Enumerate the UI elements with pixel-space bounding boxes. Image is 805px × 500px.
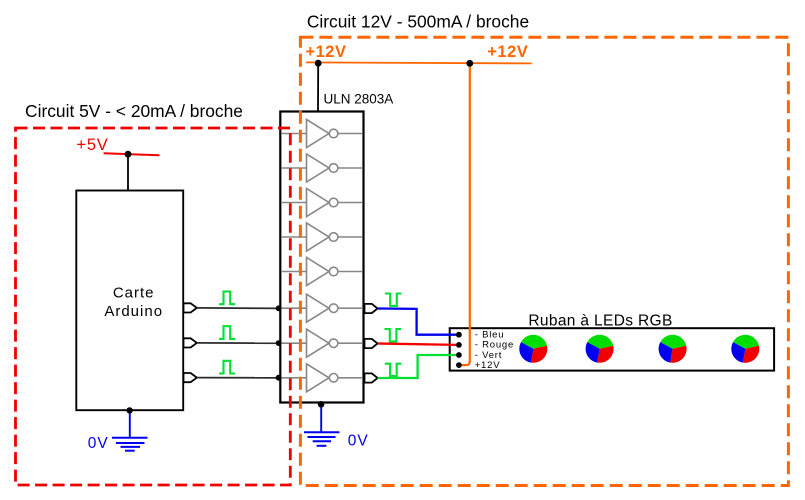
label 0V (U1 ground) bbox=[348, 432, 369, 449]
wire Arduino to ground bbox=[129, 410, 131, 437]
wire Arduino pin1 to U1F input bbox=[197, 307, 281, 310]
wire U1 to ground bbox=[320, 405, 322, 432]
svg-text:+5V: +5V bbox=[76, 136, 108, 154]
buffer gate U1H bbox=[281, 364, 363, 392]
LED D1 (RGB) bbox=[519, 335, 547, 363]
ground symbol (Arduino) bbox=[112, 438, 148, 451]
label: Ruban à LEDs RGB bbox=[528, 312, 672, 329]
svg-text:Ruban à LEDs RGB: Ruban à LEDs RGB bbox=[528, 312, 672, 329]
buffer gate U1B bbox=[281, 154, 363, 182]
boundary: Circuit 12V enclosure (orange dashed) bbox=[300, 37, 788, 485]
wire green U1H output to LED strip Vert bbox=[378, 355, 457, 378]
pin label - Vert bbox=[475, 350, 503, 361]
LED D3 (RGB) bbox=[659, 335, 687, 363]
wire Arduino pin3 to U1H input bbox=[197, 377, 281, 379]
title: Circuit 12V - 500mA / broche bbox=[307, 11, 529, 31]
buffer gate U1G bbox=[281, 329, 363, 357]
pin U1G output bbox=[365, 339, 378, 348]
title: Circuit 5V - < 20mA / broche bbox=[25, 101, 243, 121]
pin A1 output 2 bbox=[184, 338, 197, 347]
pin A1 output 3 bbox=[184, 373, 197, 382]
junction node U1G input bbox=[276, 340, 282, 346]
buffer gate U1F bbox=[281, 294, 363, 322]
LED strip body bbox=[450, 328, 774, 370]
power label +5V bbox=[76, 136, 108, 154]
svg-text:Carte: Carte bbox=[113, 284, 155, 301]
pin A1 output 1 bbox=[184, 303, 197, 312]
boundary: Circuit 5V enclosure (red dashed) bbox=[16, 128, 291, 485]
power rail +5V wire bbox=[104, 153, 160, 155]
svg-text:0V: 0V bbox=[88, 435, 109, 452]
junction node +12V at U1 bbox=[315, 60, 322, 67]
svg-text:Circuit 12V - 500mA / broche: Circuit 12V - 500mA / broche bbox=[307, 11, 529, 31]
LED D2 (RGB) bbox=[586, 335, 614, 363]
power label +12V (left) bbox=[306, 43, 347, 61]
svg-text:+12V: +12V bbox=[487, 43, 528, 61]
node LED strip Rouge bbox=[456, 342, 462, 348]
pulse symbol (positive) on wire 2 bbox=[219, 326, 235, 339]
junction node U1F input bbox=[276, 305, 282, 311]
pin U1F output bbox=[365, 304, 378, 313]
pin label +12V bbox=[475, 360, 501, 371]
pin label - Bleu bbox=[475, 330, 505, 341]
svg-text:+12V: +12V bbox=[475, 360, 501, 371]
junction node U1 ground bbox=[318, 401, 325, 408]
junction node +5V bbox=[125, 151, 132, 158]
pulse symbol (positive) on wire 3 bbox=[219, 361, 235, 374]
buffer gate U1C bbox=[281, 189, 363, 217]
pulse symbol (inverted) at U1G output bbox=[385, 329, 402, 341]
svg-text:Circuit 5V - < 20mA / broche: Circuit 5V - < 20mA / broche bbox=[25, 101, 243, 121]
junction node U1H input bbox=[276, 375, 282, 381]
wire blue U1F output to LED strip Bleu bbox=[378, 309, 457, 335]
svg-text:+12V: +12V bbox=[306, 43, 347, 61]
node LED strip +12V bbox=[456, 362, 462, 368]
node LED strip Vert bbox=[456, 352, 462, 358]
power label +12V (right) bbox=[487, 43, 528, 61]
wire orange +12V rail to LED strip bbox=[460, 63, 470, 365]
label U1: ULN 2803A bbox=[324, 92, 394, 107]
svg-text:Arduino: Arduino bbox=[104, 303, 163, 320]
Arduino board A1 body bbox=[76, 191, 183, 411]
LED D4 (RGB) bbox=[731, 335, 759, 363]
pulse symbol (positive) on wire 1 bbox=[219, 292, 235, 305]
wire Arduino pin2 to U1G input bbox=[197, 342, 281, 344]
pin U1H output bbox=[365, 373, 378, 382]
svg-text:0V: 0V bbox=[348, 432, 369, 449]
pin label - Rouge bbox=[475, 340, 514, 351]
buffer gate U1E bbox=[281, 258, 363, 286]
ground symbol (U1) bbox=[304, 432, 339, 446]
wire +12V rail to U1 supply bbox=[317, 63, 319, 111]
IC U1 ULN 2803A body bbox=[280, 112, 363, 403]
pulse symbol (inverted) at U1H output bbox=[385, 364, 402, 376]
pulse symbol (inverted) at U1F output bbox=[385, 294, 402, 306]
svg-text:ULN 2803A: ULN 2803A bbox=[324, 92, 394, 107]
junction node +12V at LED drop bbox=[466, 60, 473, 67]
label A1: Carte Arduino bbox=[104, 284, 163, 320]
buffer gate U1A bbox=[281, 120, 363, 148]
wire +5V to Arduino bbox=[127, 154, 129, 190]
node LED strip Bleu bbox=[456, 332, 462, 338]
wire red U1G output to LED strip Rouge bbox=[378, 344, 457, 345]
junction node Arduino ground bbox=[126, 407, 132, 413]
label 0V (Arduino ground) bbox=[88, 435, 109, 452]
buffer gate U1D bbox=[281, 223, 363, 251]
power rail +12V horizontal wire bbox=[306, 62, 532, 63]
